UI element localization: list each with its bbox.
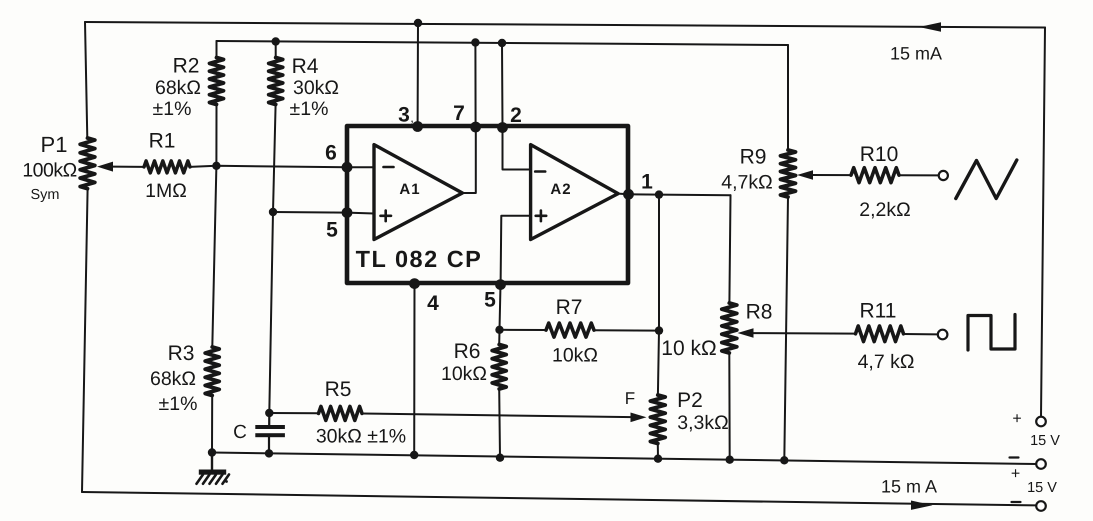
svg-text:3: 3: [398, 104, 410, 127]
wire P2 to rail: [657, 444, 659, 459]
svg-text:F: F: [625, 389, 635, 408]
capacitor C: [255, 413, 285, 453]
resistor R7: [546, 323, 594, 337]
wire lower common rail: [212, 453, 1036, 465]
label plus (top supply): [1012, 411, 1021, 428]
wire pin 1 row: [629, 193, 731, 196]
wire R4 top: [275, 42, 277, 58]
label minus (mid supply): [1010, 456, 1019, 458]
potentiometer R8: [722, 303, 737, 353]
node R4 top: [272, 37, 280, 45]
wire R11 to terminal: [904, 333, 938, 335]
label &#177;1% (R4): [290, 98, 329, 120]
label 68k&#937; (R2): [155, 77, 201, 99]
node R1/R2/R3 junction: [212, 162, 220, 170]
plus sign A2: [536, 211, 547, 222]
label R10: [860, 143, 899, 166]
wire pin6 to A1: [347, 166, 374, 168]
label P2: [677, 389, 703, 412]
terminal bottom supply: [1036, 501, 1046, 511]
label pin 6: [325, 142, 337, 165]
wiper arrow P1: [97, 162, 113, 172]
terminal +15V (top): [1036, 417, 1046, 427]
svg-text:R9: R9: [740, 146, 767, 169]
pin 6 pad: [342, 162, 353, 173]
wire R8 wiper to R11: [753, 332, 856, 335]
svg-text:4,7 kΩ: 4,7 kΩ: [858, 351, 915, 373]
IC outline TL082CP: [347, 126, 628, 283]
svg-text:P2: P2: [677, 389, 703, 412]
label 15 mA (bottom): [881, 477, 937, 497]
wire pin 5 down to R6 node: [500, 285, 501, 330]
label 1M&#937; (R1): [145, 180, 187, 202]
node R8 rail: [726, 456, 734, 464]
terminal triangle output: [939, 171, 948, 180]
svg-text:1MΩ: 1MΩ: [145, 180, 187, 202]
label 10k&#937; (R7): [552, 345, 598, 367]
resistor R10: [851, 168, 899, 183]
label F (node F): [625, 389, 635, 408]
pin 7 pad: [470, 122, 481, 133]
resistor R11: [856, 326, 904, 342]
label R5: [325, 378, 352, 401]
wiper arrow into R9: [797, 170, 813, 180]
node P2 rail: [654, 455, 662, 463]
svg-text:R5: R5: [325, 378, 352, 401]
svg-text:10kΩ: 10kΩ: [552, 345, 598, 367]
svg-text:P1: P1: [41, 132, 68, 157]
node pin5 wire junction: [269, 208, 277, 216]
wiper arrow into R8: [738, 328, 754, 338]
svg-text:15 V: 15 V: [1027, 480, 1057, 496]
wire A2 output to pin 1: [618, 193, 629, 196]
wire pin1 branch down to R8: [729, 195, 730, 303]
svg-text:7: 7: [453, 102, 465, 125]
svg-text:15 mA: 15 mA: [890, 44, 942, 64]
label 4,7k&#937; (R9): [721, 172, 772, 194]
label pin 7: [453, 102, 465, 125]
minus sign A2: [535, 170, 545, 173]
svg-text:4,7kΩ: 4,7kΩ: [721, 172, 772, 194]
pin 5 pad (left): [342, 207, 353, 218]
node pin1 branch: [655, 190, 663, 198]
svg-text:A1: A1: [399, 181, 420, 198]
wire P1 wiper to R1: [113, 166, 144, 168]
wire R7 right: [594, 329, 659, 331]
svg-text:10kΩ: 10kΩ: [441, 363, 487, 385]
node R3/ground junction: [208, 448, 216, 456]
wire node to R6: [498, 330, 500, 345]
svg-text:±1%: ±1%: [159, 393, 198, 415]
pin 3 pad: [412, 121, 423, 132]
label R1: [149, 130, 176, 153]
label 3,3k&#937; (P2): [677, 412, 728, 434]
wire right border: [1041, 28, 1045, 417]
label R11: [860, 300, 897, 323]
svg-text:A2: A2: [550, 181, 571, 198]
node pin 2 rail: [498, 39, 506, 47]
svg-text:±1%: ±1%: [290, 98, 329, 120]
wire node to R3: [212, 166, 216, 347]
label 15V (lower supply): [1027, 480, 1057, 496]
wire R4 bottom to pin5 node: [273, 105, 276, 213]
resistor R6: [492, 345, 506, 390]
pin 7 wire: [474, 43, 476, 128]
potentiometer R9: [781, 150, 796, 197]
label R8: [746, 301, 773, 324]
label A1: [399, 181, 420, 198]
svg-text:+: +: [1012, 411, 1021, 428]
wiper arrow into P2 (node F): [631, 413, 647, 423]
resistor R3: [205, 347, 219, 396]
svg-text:Sym: Sym: [31, 187, 60, 203]
label plus (lower supply): [1011, 466, 1020, 483]
node R9 rail: [780, 456, 788, 464]
svg-text:68kΩ: 68kΩ: [155, 77, 201, 99]
node pin 4 rail: [410, 451, 418, 459]
label A2: [550, 181, 571, 198]
svg-text:100kΩ: 100kΩ: [22, 160, 76, 182]
svg-text:R4: R4: [292, 55, 319, 78]
svg-text:,: ,: [410, 110, 414, 125]
wire R1 to pin 6: [190, 166, 347, 167]
node R6 rail: [496, 454, 504, 462]
wire R9 down to rail: [784, 197, 788, 460]
resistor R5: [319, 406, 363, 420]
svg-text:R10: R10: [860, 143, 899, 166]
svg-text:R3: R3: [168, 342, 195, 365]
wire left border (P1 branch): [82, 22, 88, 492]
terminal mid supply: [1036, 459, 1046, 469]
pin 4 pad: [409, 278, 420, 289]
wire R6 to rail: [498, 389, 501, 458]
svg-text:C: C: [233, 422, 247, 443]
label C: [233, 422, 247, 443]
label R9: [740, 146, 767, 169]
wire R3 bottom to ground node: [211, 396, 213, 453]
wire R2 bottom to node: [215, 105, 217, 166]
current arrow 15 mA (top rail, pointing left): [919, 22, 941, 32]
triangle wave symbol: [956, 160, 1017, 199]
resistor R4: [269, 58, 283, 105]
label 100k&#937; (P1): [22, 160, 76, 182]
label 15 mA (top): [890, 44, 942, 64]
terminal square output: [938, 330, 948, 340]
wire node down to R7 junction: [658, 195, 660, 331]
svg-text:TL 082 CP: TL 082 CP: [356, 246, 483, 272]
label R2: [173, 55, 200, 78]
svg-text:15 m A: 15 m A: [881, 477, 937, 497]
label 30k&#937; (R4): [293, 77, 339, 99]
label pin 5 (left): [326, 219, 338, 242]
label R4: [292, 55, 319, 78]
comma artifact after 3: [410, 110, 414, 125]
svg-text:5: 5: [326, 219, 338, 242]
label R6: [454, 340, 481, 363]
label 15V (top supply): [1030, 433, 1060, 449]
svg-text:4: 4: [427, 292, 439, 315]
wire A1 output to pin 7: [462, 127, 476, 193]
svg-text:6: 6: [325, 142, 337, 165]
wire bottom border: [82, 492, 1036, 505]
svg-text:R7: R7: [556, 296, 583, 319]
square wave symbol: [968, 315, 1015, 351]
svg-text:R8: R8: [746, 301, 773, 324]
svg-text:15 V: 15 V: [1030, 433, 1060, 449]
label 10k&#937; (R6): [441, 363, 487, 385]
minus sign A1: [384, 166, 394, 169]
wire top supply rail: [85, 22, 1045, 28]
pin 3 wire: [417, 23, 419, 127]
node R6/R7 junction: [495, 326, 503, 334]
potentiometer P1: [80, 138, 95, 189]
label 30k&#937; &#177;1% (R5): [316, 426, 406, 448]
svg-text:30kΩ ±1%: 30kΩ ±1%: [316, 426, 406, 448]
label 68k&#937; (R3): [150, 368, 196, 390]
label 10 k&#937; (R8): [661, 337, 716, 360]
label pin 3: [398, 104, 410, 127]
label pin 2: [510, 104, 522, 127]
svg-text:R6: R6: [454, 340, 481, 363]
wire R8 to rail: [728, 353, 730, 460]
svg-text:±1%: ±1%: [153, 98, 192, 120]
wire pin 2 to A2 input: [503, 128, 531, 170]
node pin 7 rail: [471, 38, 479, 46]
resistor R2: [210, 58, 224, 105]
svg-text:5: 5: [484, 289, 496, 312]
wire pin 4 down to rail: [413, 284, 415, 455]
label pin 5 (bottom): [484, 289, 496, 312]
wire A2 plus to pin 5 bottom: [501, 216, 531, 284]
ground: [197, 453, 230, 484]
label pin 1: [641, 171, 653, 194]
label &#177;1% (R2): [153, 98, 192, 120]
node R7 right junction: [655, 326, 663, 334]
pin 2 pad: [497, 122, 508, 133]
svg-text:1: 1: [641, 171, 653, 194]
wire node to R5: [269, 412, 318, 414]
label P1: [41, 132, 68, 157]
label TL 082 CP: [356, 246, 483, 272]
label pin 4: [427, 292, 439, 315]
wire R7 node down to P2: [658, 331, 659, 395]
wire pin5 row: [273, 211, 347, 214]
wire R10 to terminal: [899, 174, 939, 176]
wire R4 node down to capacitor: [269, 212, 273, 413]
svg-text:2,2kΩ: 2,2kΩ: [859, 199, 910, 221]
label R3: [168, 342, 195, 365]
svg-text:R11: R11: [860, 300, 897, 323]
label Sym (P1): [31, 187, 60, 203]
current arrow 15 mA (bottom, pointing right): [911, 501, 933, 510]
wire pin5 to A1: [347, 212, 374, 215]
pin 2 wire: [501, 43, 504, 128]
svg-text:68kΩ: 68kΩ: [150, 368, 196, 390]
label 4,7 k&#937; (R11): [858, 351, 915, 373]
wire rail corner to R2: [216, 41, 218, 58]
node pin 3 top rail: [414, 19, 422, 27]
pin 1 pad: [623, 189, 634, 200]
svg-text:R1: R1: [149, 130, 176, 153]
wire R7 left: [500, 329, 547, 331]
svg-text:R2: R2: [173, 55, 200, 78]
pin 5 pad (bottom): [495, 279, 506, 290]
op-amp A2: [531, 145, 619, 240]
svg-text:2: 2: [510, 104, 522, 127]
svg-text:30kΩ: 30kΩ: [293, 77, 339, 99]
svg-text:3,3kΩ: 3,3kΩ: [677, 412, 728, 434]
node capacitor to rail: [265, 449, 273, 457]
potentiometer P2: [650, 395, 665, 444]
wire rail to R9: [787, 45, 789, 150]
label R7: [556, 296, 583, 319]
resistor R1: [144, 161, 190, 173]
label minus (bottom supply): [1012, 501, 1021, 503]
node R5 left junction: [265, 409, 273, 417]
svg-text:10 kΩ: 10 kΩ: [661, 337, 716, 360]
wire R9 wiper to R10: [812, 174, 852, 176]
plus sign A1: [381, 211, 392, 222]
wire R5 to P2 wiper: [362, 414, 633, 418]
label &#177;1% (R3): [159, 393, 198, 415]
op-amp A1: [374, 145, 462, 240]
wire upper bias rail: [217, 41, 789, 45]
label 2,2k&#937; (R10): [859, 199, 910, 221]
svg-text:+: +: [1011, 466, 1020, 483]
